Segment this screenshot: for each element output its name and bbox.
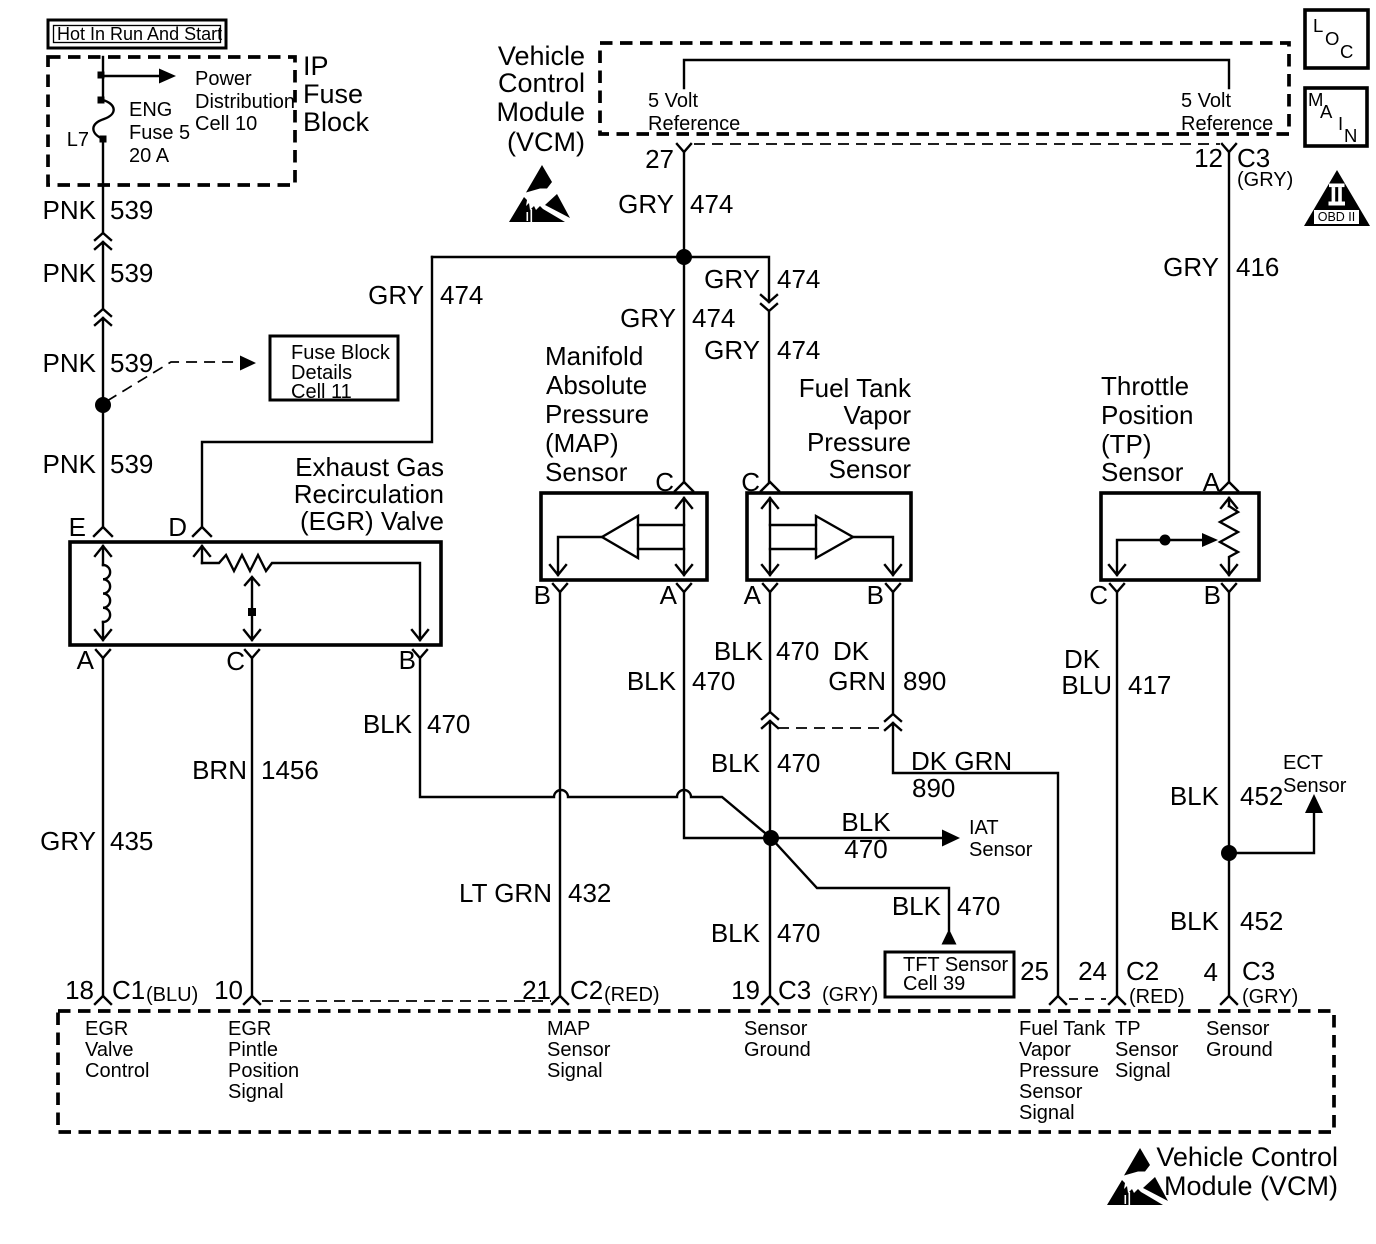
- svg-text:10: 10: [214, 975, 243, 1005]
- pin 27 of VCM: [677, 144, 691, 152]
- connector inline on DK GRN 890: [885, 714, 1058, 996]
- pin A of FTVP sensor: [763, 584, 777, 592]
- svg-text:BLK: BLK: [1170, 781, 1220, 811]
- svg-text:(GRY): (GRY): [822, 984, 878, 1006]
- svg-text:12: 12: [1194, 143, 1223, 173]
- pin D of EGR valve: [193, 527, 211, 536]
- label Throttle Position (TP) Sensor: [1101, 371, 1194, 487]
- svg-text:474: 474: [690, 189, 733, 219]
- svg-text:452: 452: [1240, 906, 1283, 936]
- svg-text:Vapor: Vapor: [844, 400, 912, 430]
- svg-text:474: 474: [777, 264, 820, 294]
- svg-text:(TP): (TP): [1101, 429, 1152, 459]
- svg-text:(GRY): (GRY): [1237, 169, 1293, 191]
- svg-text:BLK: BLK: [711, 748, 761, 778]
- svg-text:GRN: GRN: [828, 666, 886, 696]
- svg-text:Cell 11: Cell 11: [291, 381, 352, 403]
- connector link dashed line pins 27-12: [694, 143, 1220, 145]
- label DK GRN 890 (horizontal run): [911, 746, 1012, 803]
- wire GRY 474 from EGR pin D up and over to 5V reference rail: [202, 257, 432, 527]
- svg-text:Control: Control: [498, 68, 585, 98]
- svg-text:C1: C1: [112, 975, 145, 1005]
- box TFT Sensor Cell 39: [885, 952, 1014, 997]
- EGR valve box: [70, 542, 441, 645]
- node: junction square at power distribution tap: [98, 72, 105, 79]
- svg-text:E: E: [69, 512, 86, 542]
- coil of EGR valve solenoid: [95, 546, 111, 640]
- label BLK 470 (TFT stub): [892, 891, 1001, 921]
- label Fuel Tank Vapor Pressure Sensor Signal: [1019, 1018, 1106, 1124]
- svg-text:18: 18: [65, 975, 94, 1005]
- svg-text:BLK: BLK: [892, 891, 942, 921]
- svg-text:21: 21: [522, 975, 551, 1005]
- wire BLK 470 from EGR pin B across to sensor ground junction: [420, 658, 949, 930]
- wire 5 volt reference rail inside VCM: [684, 60, 1229, 88]
- svg-text:5 Volt: 5 Volt: [648, 90, 698, 112]
- svg-text:DK: DK: [833, 636, 870, 666]
- pin E of EGR valve: [94, 527, 112, 536]
- svg-text:Pintle: Pintle: [228, 1039, 278, 1061]
- svg-text:C: C: [226, 646, 245, 676]
- svg-text:Hot In Run And Start: Hot In Run And Start: [57, 24, 222, 44]
- pin 21 C2 (RED) of VCM: [552, 996, 568, 1004]
- svg-text:(RED): (RED): [604, 984, 660, 1006]
- svg-text:470: 470: [777, 918, 820, 948]
- svg-text:Cell 39: Cell 39: [903, 973, 965, 995]
- svg-text:Position: Position: [228, 1060, 299, 1082]
- node: junction dot to ECT sensor: [1221, 845, 1237, 861]
- svg-text:Ground: Ground: [744, 1039, 811, 1061]
- svg-text:Signal: Signal: [547, 1060, 603, 1082]
- svg-text:Fuel Tank: Fuel Tank: [1019, 1018, 1106, 1040]
- svg-text:C: C: [1340, 41, 1353, 62]
- svg-text:Ground: Ground: [1206, 1039, 1273, 1061]
- svg-text:GRY: GRY: [704, 335, 760, 365]
- svg-text:BLU: BLU: [1061, 670, 1112, 700]
- label TP Sensor Signal: [1115, 1018, 1179, 1082]
- svg-text:GRY: GRY: [620, 303, 676, 333]
- title box Hot In Run And Start: [48, 20, 226, 48]
- arrow to TFT sensor reference: [942, 929, 957, 945]
- wiper of EGR pintle position sensor: [244, 577, 260, 640]
- wire BLK 470 from MAP pin A down to junction: [684, 592, 764, 838]
- svg-text:539: 539: [110, 258, 153, 288]
- connector link dashed line BLK470-DKGRN: [778, 727, 885, 729]
- svg-text:L7: L7: [67, 129, 89, 151]
- pin 25 of VCM: [1050, 996, 1066, 1004]
- wire DK GRN 890 from FTVP pin B: [892, 592, 894, 714]
- svg-text:(RED): (RED): [1129, 986, 1185, 1008]
- label GRY 474 (D riser): [368, 280, 483, 310]
- svg-text:BLK: BLK: [1170, 906, 1220, 936]
- svg-text:BRN: BRN: [192, 755, 247, 785]
- svg-text:OBD II: OBD II: [1318, 210, 1356, 224]
- svg-text:Sensor: Sensor: [545, 457, 628, 487]
- svg-text:474: 474: [440, 280, 483, 310]
- wire BLK 452 from TP pin B to VCM pin 4: [1228, 592, 1230, 996]
- node: junction dot on PNK 539: [95, 397, 111, 413]
- svg-text:19: 19: [731, 975, 760, 1005]
- label BLK 470 (below connector): [711, 748, 821, 778]
- wire GRY 435 from EGR pin A to VCM pin 18: [102, 658, 104, 996]
- svg-text:Absolute: Absolute: [546, 370, 647, 400]
- pin B of EGR valve: [413, 650, 427, 658]
- svg-text:539: 539: [110, 449, 153, 479]
- svg-text:4: 4: [1204, 957, 1218, 987]
- svg-text:470: 470: [776, 636, 819, 666]
- label PNK 539 (1): [43, 195, 154, 225]
- svg-text:GRY: GRY: [618, 189, 674, 219]
- MAP sensor box: [541, 493, 707, 580]
- svg-text:(BLU): (BLU): [146, 984, 198, 1006]
- MAP sensor internal symbol (amplifier): [550, 498, 692, 575]
- svg-text:Control: Control: [85, 1060, 149, 1082]
- svg-text:Pressure: Pressure: [545, 399, 649, 429]
- label Exhaust Gas Recirculation (EGR) Valve: [294, 452, 444, 536]
- TP sensor internal potentiometer: [1109, 498, 1238, 575]
- svg-text:Module: Module: [496, 97, 585, 127]
- label Vehicle Control Module (VCM) top: [496, 41, 585, 157]
- wire arrow to ECT sensor: [1229, 812, 1314, 853]
- svg-text:Sensor: Sensor: [547, 1039, 611, 1061]
- svg-text:890: 890: [903, 666, 946, 696]
- label GRY 474 (x770 above connector): [704, 264, 820, 294]
- svg-text:(MAP): (MAP): [545, 428, 619, 458]
- svg-text:Sensor: Sensor: [1101, 457, 1184, 487]
- svg-text:539: 539: [110, 195, 153, 225]
- svg-text:20 A: 20 A: [129, 145, 170, 167]
- svg-text:I: I: [1338, 113, 1343, 134]
- node: sensor ground junction dot: [763, 830, 779, 846]
- svg-text:Sensor: Sensor: [1019, 1081, 1083, 1103]
- svg-text:5 Volt: 5 Volt: [1181, 90, 1231, 112]
- svg-text:470: 470: [777, 748, 820, 778]
- label DK GRN 890 (upper): [828, 636, 946, 696]
- svg-text:25: 25: [1020, 956, 1049, 986]
- svg-text:539: 539: [110, 348, 153, 378]
- wire PNK 539 from fuse down to EGR valve pin E: [102, 139, 104, 233]
- wire: battery feed from Hot In Run And Start into fuse block: [102, 57, 104, 97]
- pin 4 C3 (GRY) of VCM: [1221, 996, 1237, 1004]
- svg-text:C2: C2: [570, 975, 603, 1005]
- label GRY 474 (x684 lower): [620, 303, 735, 333]
- IP Fuse Block dashed box: [48, 57, 295, 185]
- wire DK BLU 417 from TP pin C to VCM pin 24: [1116, 592, 1118, 996]
- pin 24 of VCM: [1109, 996, 1125, 1004]
- svg-text:PNK: PNK: [43, 258, 97, 288]
- pin 19 C3 (GRY) of VCM: [762, 996, 778, 1004]
- svg-text:Recirculation: Recirculation: [294, 479, 444, 509]
- svg-text:Vehicle: Vehicle: [498, 41, 585, 71]
- svg-text:B: B: [399, 645, 416, 675]
- svg-text:Power: Power: [195, 68, 252, 90]
- label PNK 539 (3): [43, 348, 154, 378]
- svg-text:Pressure: Pressure: [1019, 1060, 1099, 1082]
- svg-text:Sensor: Sensor: [1283, 775, 1347, 797]
- VCM bottom dashed box: [58, 1011, 1334, 1132]
- label PNK 539 (4): [43, 449, 154, 479]
- svg-text:435: 435: [110, 826, 153, 856]
- label ECT Sensor: [1283, 752, 1347, 797]
- pin 18 C1 (BLU) of VCM: [95, 996, 111, 1004]
- svg-text:EGR: EGR: [228, 1018, 271, 1040]
- LOC block symbol: [1305, 10, 1368, 68]
- svg-text:Position: Position: [1101, 400, 1194, 430]
- wire arrow to Power Distribution Cell 10: [103, 75, 158, 77]
- label GRY 416: [1163, 252, 1279, 282]
- svg-text:416: 416: [1236, 252, 1279, 282]
- svg-text:C3: C3: [778, 975, 811, 1005]
- svg-text:Sensor: Sensor: [744, 1018, 808, 1040]
- label BLK 452 (lower): [1170, 906, 1284, 936]
- svg-text:474: 474: [692, 303, 735, 333]
- label Manifold Absolute Pressure (MAP) Sensor: [545, 341, 649, 487]
- svg-text:C2: C2: [1126, 956, 1159, 986]
- node: junction dot GRY 474 rail: [676, 249, 692, 265]
- svg-text:432: 432: [568, 878, 611, 908]
- MAIN block symbol: [1305, 88, 1367, 146]
- pin B of MAP sensor: [553, 584, 567, 592]
- svg-text:1456: 1456: [261, 755, 319, 785]
- connector inline on BLK 470: [762, 712, 778, 996]
- wire GRY 416 from pin 12 down to TP sensor pin A: [1228, 152, 1230, 482]
- label EGR Valve Control: [85, 1018, 149, 1082]
- svg-text:DK GRN: DK GRN: [911, 746, 1012, 776]
- svg-text:BLK: BLK: [627, 666, 677, 696]
- svg-text:Fuse: Fuse: [303, 79, 363, 109]
- label Vehicle Control Module (VCM) bottom: [1156, 1142, 1338, 1201]
- svg-text:N: N: [1344, 125, 1357, 146]
- svg-text:Fuel Tank: Fuel Tank: [799, 373, 912, 403]
- pin A of MAP sensor: [677, 584, 691, 592]
- wire BLK 470 from FTVP pin A to VCM pin 19: [769, 592, 771, 712]
- svg-text:Throttle: Throttle: [1101, 371, 1189, 401]
- svg-text:MAP: MAP: [547, 1018, 590, 1040]
- svg-text:A: A: [744, 580, 762, 610]
- svg-text:D: D: [168, 512, 187, 542]
- svg-text:470: 470: [957, 891, 1000, 921]
- connector link dashed line pins 25-24: [1069, 998, 1106, 1000]
- svg-text:L: L: [1313, 15, 1323, 36]
- connector inline on PNK 539 (lower): [95, 309, 111, 527]
- svg-text:Sensor: Sensor: [1115, 1039, 1179, 1061]
- connector inline on GRY 474 branch: [761, 295, 777, 482]
- svg-text:Fuse Block: Fuse Block: [291, 342, 391, 364]
- label MAP Sensor Signal: [547, 1018, 611, 1082]
- wire GRY 474 from pin 27 down to MAP sensor pin C: [683, 152, 685, 482]
- connector link dashed line pins 10-21: [262, 1000, 551, 1002]
- pin 12 C3 (GRY) of VCM: [1222, 144, 1236, 152]
- svg-text:BLK: BLK: [711, 918, 761, 948]
- pin C of EGR valve: [245, 650, 259, 658]
- VCM 5 volt reference dashed box: [600, 43, 1289, 134]
- pin A of EGR valve: [96, 650, 110, 658]
- svg-text:GRY: GRY: [1163, 252, 1219, 282]
- label EGR Pintle Position Signal: [228, 1018, 299, 1103]
- svg-text:BLK: BLK: [363, 709, 413, 739]
- svg-text:(EGR) Valve: (EGR) Valve: [300, 506, 444, 536]
- fuse ENG Fuse 5 20 A: [67, 97, 190, 168]
- svg-text:PNK: PNK: [43, 348, 97, 378]
- connector inline on PNK 539 (upper): [95, 233, 111, 309]
- svg-text:417: 417: [1128, 670, 1171, 700]
- label Fuel Tank Vapor Pressure Sensor: [799, 373, 912, 484]
- svg-text:B: B: [1204, 580, 1221, 610]
- svg-text:470: 470: [692, 666, 735, 696]
- pin 10 of VCM: [244, 996, 260, 1004]
- label Sensor Ground (left): [744, 1018, 811, 1061]
- svg-text:Signal: Signal: [1019, 1102, 1075, 1124]
- svg-text:O: O: [1325, 28, 1339, 49]
- svg-text:IP: IP: [303, 51, 329, 81]
- svg-text:470: 470: [427, 709, 470, 739]
- svg-text:Module (VCM): Module (VCM): [1164, 1171, 1338, 1201]
- svg-text:Vehicle Control: Vehicle Control: [1156, 1142, 1338, 1172]
- svg-text:ECT: ECT: [1283, 752, 1323, 774]
- svg-text:(GRY): (GRY): [1242, 986, 1298, 1008]
- svg-text:Cell 10: Cell 10: [195, 113, 257, 135]
- svg-text:Sensor: Sensor: [1206, 1018, 1270, 1040]
- svg-text:PNK: PNK: [43, 195, 97, 225]
- svg-text:470: 470: [844, 834, 887, 864]
- svg-text:B: B: [534, 580, 551, 610]
- wire LT GRN 432 from MAP pin B to VCM pin 21: [559, 592, 561, 996]
- svg-text:B: B: [867, 580, 884, 610]
- svg-text:Exhaust Gas: Exhaust Gas: [295, 452, 444, 482]
- svg-text:GRY: GRY: [368, 280, 424, 310]
- svg-text:Pressure: Pressure: [807, 427, 911, 457]
- box Fuse Block Details Cell 11: [270, 336, 398, 403]
- svg-text:Manifold: Manifold: [545, 341, 643, 371]
- label Sensor Ground (right): [1206, 1018, 1273, 1061]
- ESD sensitivity symbol (top): [509, 165, 570, 222]
- label GRY 474 (below pin 27): [618, 189, 733, 219]
- svg-text:(VCM): (VCM): [507, 127, 585, 157]
- pin A of TP sensor: [1220, 482, 1238, 491]
- svg-text:A: A: [660, 580, 678, 610]
- dashed reference arrow to Fuse Block Details: [107, 362, 238, 401]
- wire arrow to IAT sensor: [778, 837, 942, 839]
- svg-text:C: C: [1089, 580, 1108, 610]
- svg-text:Fuse 5: Fuse 5: [129, 122, 190, 144]
- pin B of TP sensor: [1222, 584, 1236, 592]
- svg-text:BLK: BLK: [714, 636, 764, 666]
- OBD II symbol: [1304, 170, 1370, 226]
- label BLK 470 (IAT branch): [841, 807, 891, 864]
- svg-text:IAT: IAT: [969, 817, 999, 839]
- wire GRY 474 branch to fuel tank vapor pressure sensor pin C: [432, 257, 769, 302]
- svg-text:LT GRN: LT GRN: [459, 878, 552, 908]
- svg-text:ENG: ENG: [129, 99, 172, 121]
- TP sensor box: [1101, 493, 1259, 580]
- svg-text:27: 27: [645, 144, 674, 174]
- svg-text:Valve: Valve: [85, 1039, 134, 1061]
- svg-text:TP: TP: [1115, 1018, 1141, 1040]
- svg-text:24: 24: [1078, 956, 1107, 986]
- svg-text:Distribution: Distribution: [195, 91, 295, 113]
- svg-text:Vapor: Vapor: [1019, 1039, 1071, 1061]
- label IP Fuse Block: [303, 51, 370, 137]
- resistor (EGR pintle position): [194, 546, 428, 640]
- svg-text:PNK: PNK: [43, 449, 97, 479]
- label GRY 474 (x770 lower): [704, 335, 820, 365]
- pin B of FTVP sensor: [886, 584, 900, 592]
- FTVP sensor internal symbol (amplifier): [762, 498, 901, 575]
- svg-text:890: 890: [912, 773, 955, 803]
- svg-text:A: A: [77, 645, 95, 675]
- label BLK 470 (above pin 19): [711, 918, 821, 948]
- svg-text:A: A: [1320, 101, 1333, 122]
- svg-text:Signal: Signal: [1115, 1060, 1171, 1082]
- label IAT Sensor: [969, 817, 1033, 861]
- svg-text:Sensor: Sensor: [829, 454, 912, 484]
- svg-text:GRY: GRY: [40, 826, 96, 856]
- svg-text:Sensor: Sensor: [969, 839, 1033, 861]
- svg-text:Reference: Reference: [1181, 113, 1273, 135]
- fuel tank vapor pressure sensor box: [747, 493, 911, 580]
- svg-text:BLK: BLK: [841, 807, 891, 837]
- svg-text:452: 452: [1240, 781, 1283, 811]
- svg-text:C3: C3: [1242, 956, 1275, 986]
- svg-text:Block: Block: [303, 107, 370, 137]
- svg-text:EGR: EGR: [85, 1018, 128, 1040]
- ESD sensitivity symbol (bottom): [1107, 1148, 1168, 1205]
- pin C of fuel tank vapor pressure sensor: [761, 482, 779, 491]
- svg-text:GRY: GRY: [704, 264, 760, 294]
- svg-text:Reference: Reference: [648, 113, 740, 135]
- wire BRN 1456 from EGR pin C to VCM pin 10: [251, 658, 253, 996]
- svg-text:Signal: Signal: [228, 1081, 284, 1103]
- label PNK 539 (2): [43, 258, 154, 288]
- pin C of TP sensor: [1110, 584, 1124, 592]
- svg-text:474: 474: [777, 335, 820, 365]
- pin C of MAP sensor: [675, 482, 693, 491]
